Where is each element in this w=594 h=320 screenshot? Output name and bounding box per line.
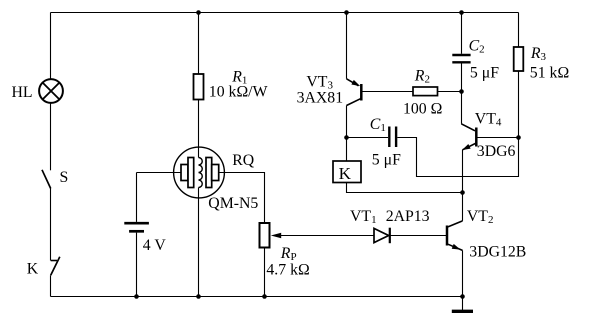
svg-text:10 kΩ/W: 10 kΩ/W bbox=[209, 84, 268, 101]
svg-text:51 kΩ: 51 kΩ bbox=[530, 65, 569, 82]
svg-text:5 μF: 5 μF bbox=[372, 152, 401, 169]
svg-text:K: K bbox=[27, 261, 39, 278]
svg-text:100 Ω: 100 Ω bbox=[403, 100, 442, 117]
svg-text:HL: HL bbox=[12, 84, 33, 101]
svg-text:3AX81: 3AX81 bbox=[297, 90, 344, 107]
svg-text:3DG12B: 3DG12B bbox=[469, 244, 526, 261]
svg-text:RQ: RQ bbox=[232, 152, 255, 169]
svg-text:4 V: 4 V bbox=[143, 237, 167, 254]
svg-text:QM-N5: QM-N5 bbox=[208, 195, 258, 212]
svg-text:5 μF: 5 μF bbox=[470, 65, 499, 82]
svg-text:S: S bbox=[60, 169, 69, 186]
svg-text:K: K bbox=[339, 164, 352, 183]
svg-text:4.7 kΩ: 4.7 kΩ bbox=[266, 261, 309, 278]
svg-text:2AP13: 2AP13 bbox=[386, 208, 430, 225]
svg-text:3DG6: 3DG6 bbox=[477, 143, 516, 160]
